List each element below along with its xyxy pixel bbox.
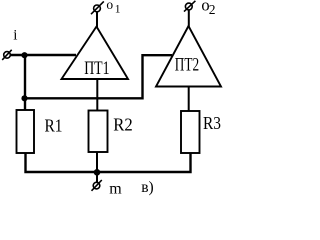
svg-text:R2: R2 bbox=[113, 115, 133, 135]
svg-text:1: 1 bbox=[115, 4, 121, 16]
svg-text:o: o bbox=[106, 0, 113, 12]
svg-text:m: m bbox=[109, 181, 122, 198]
svg-text:ПТ2: ПТ2 bbox=[175, 55, 199, 76]
svg-text:R3: R3 bbox=[203, 113, 221, 133]
svg-text:R1: R1 bbox=[45, 116, 63, 136]
svg-text:i: i bbox=[13, 28, 17, 44]
svg-text:в): в) bbox=[141, 179, 153, 196]
svg-text:2: 2 bbox=[209, 2, 216, 17]
svg-text:ПТ1: ПТ1 bbox=[84, 58, 109, 79]
